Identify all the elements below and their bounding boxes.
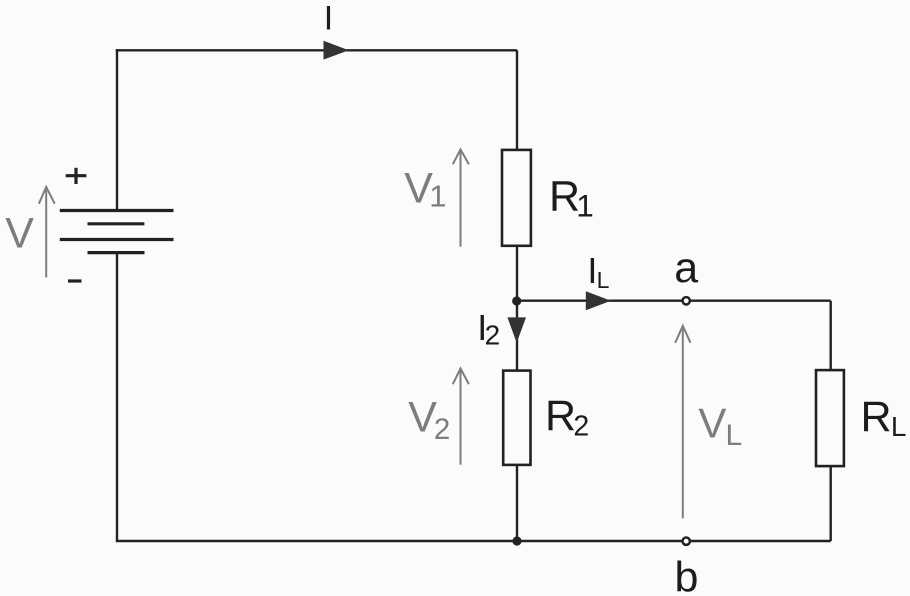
svg-text:V: V [698,399,726,446]
svg-text:V: V [5,210,34,258]
svg-text:b: b [675,554,699,596]
svg-text:2: 2 [485,320,501,351]
svg-text:L: L [891,411,907,442]
svg-text:I: I [324,0,333,37]
svg-text:L: L [597,267,610,293]
svg-text:1: 1 [576,188,594,224]
svg-text:R: R [861,393,892,441]
svg-text:a: a [674,244,698,292]
svg-text:2: 2 [434,413,450,446]
svg-text:1: 1 [429,179,446,214]
svg-text:L: L [726,419,743,452]
svg-text:2: 2 [573,411,589,443]
svg-text:R: R [545,392,576,440]
